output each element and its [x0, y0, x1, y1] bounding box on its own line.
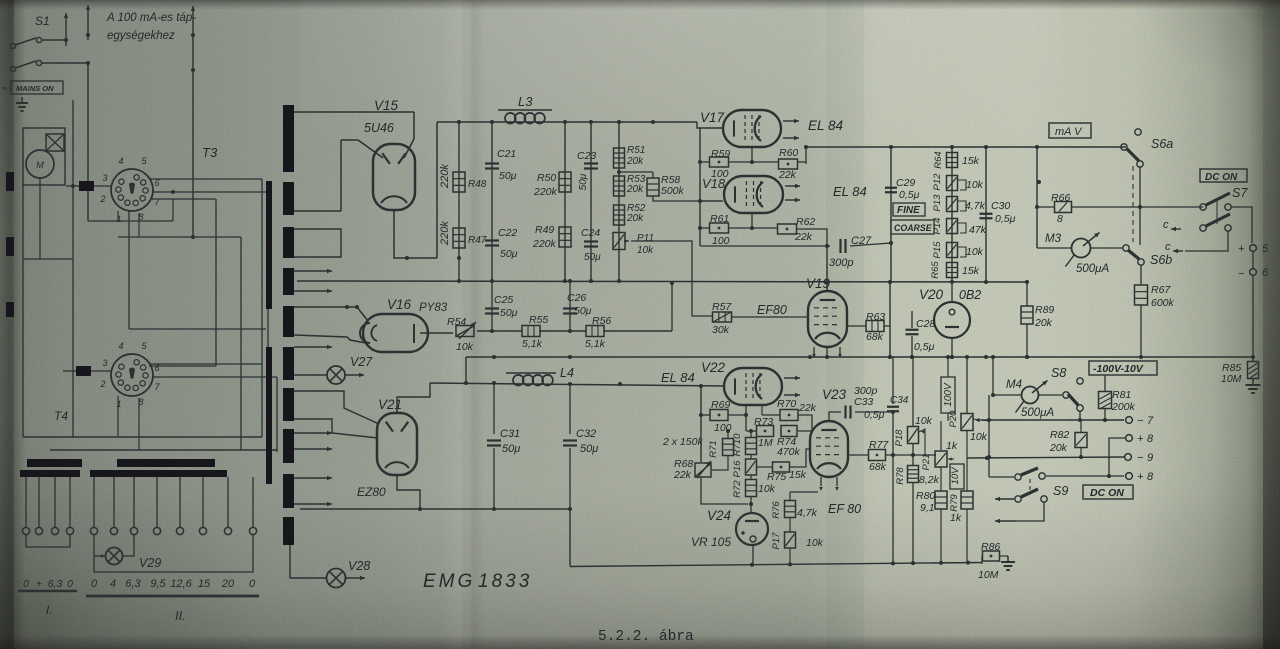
wire y259 horizontal: [23, 258, 73, 260]
switch S6a: [1135, 129, 1141, 135]
svg-text:2: 2: [99, 194, 105, 204]
wire C21 column x492: [491, 122, 493, 281]
svg-text:P18: P18: [894, 429, 905, 447]
svg-text:1833: 1833: [478, 571, 532, 592]
rail bias y281: [297, 281, 1028, 282]
svg-text:220k: 220k: [439, 221, 451, 246]
svg-text:R55: R55: [529, 314, 548, 326]
wire socket2 pin6 right: [149, 363, 262, 365]
svg-text:S6a: S6a: [1151, 137, 1173, 151]
svg-text:V19: V19: [806, 276, 831, 291]
svg-text:1: 1: [116, 399, 121, 409]
potentiometer P21: [935, 451, 947, 467]
resistor R710: [750, 431, 752, 437]
svg-text:c: c: [1165, 241, 1171, 253]
svg-text:P11: P11: [637, 233, 654, 244]
svg-text:R71: R71: [708, 440, 719, 457]
resistor R56: [586, 326, 604, 337]
black mark left edge 3: [6, 302, 14, 317]
svg-text:0: 0: [23, 578, 29, 590]
svg-text:15k: 15k: [962, 265, 980, 277]
V21 anode winding wire 1: [294, 391, 379, 424]
wire bus C with up arrow: [192, 35, 194, 237]
svg-text:R81: R81: [1112, 389, 1131, 401]
svg-text:V24: V24: [707, 508, 731, 523]
capacitor C29: [885, 187, 897, 189]
terminal 8 lower: [1126, 473, 1133, 480]
terminal bar row2 seg2: [90, 470, 227, 477]
transformer core bar left segment 2: [266, 347, 272, 484]
heater winding arrow 2: [294, 290, 332, 292]
box DC ON right: [1200, 169, 1247, 182]
wire socket1 bottom bus: [88, 220, 173, 222]
inductor L3: [505, 113, 516, 124]
wire bus y450: [50, 449, 277, 451]
svg-text:30k: 30k: [712, 324, 730, 336]
box 10V rotated: [950, 464, 964, 489]
svg-text:470k: 470k: [777, 446, 801, 458]
wire S8 down to -7 rail: [1079, 411, 1081, 420]
svg-text:R76: R76: [771, 501, 782, 519]
svg-text:220k: 220k: [532, 238, 557, 250]
svg-text:−: −: [1137, 415, 1144, 427]
svg-text:EZ80: EZ80: [357, 485, 386, 499]
svg-text:V20: V20: [919, 287, 944, 302]
wire V22 pin x746: [745, 404, 747, 431]
svg-text:EF 80: EF 80: [828, 502, 861, 516]
lamp V28 arrow: [346, 577, 365, 579]
terminal lead II x94: [93, 477, 95, 527]
switch S7 pole 1: [1200, 204, 1206, 210]
wire R57 to V19 grid: [731, 316, 808, 318]
terminal lead II x114: [113, 477, 115, 527]
wire V24 down: [752, 545, 754, 565]
V20 bottom lead: [951, 338, 953, 357]
terminal lead II x157: [156, 477, 158, 527]
V20 top lead: [951, 282, 953, 302]
svg-text:V23: V23: [822, 387, 847, 402]
resistor R58: [647, 178, 659, 196]
svg-text:20: 20: [221, 578, 235, 590]
svg-text:C30: C30: [991, 200, 1010, 212]
resistor R64: [947, 153, 958, 168]
tube V22: [724, 368, 782, 405]
svg-text:V27: V27: [350, 355, 373, 369]
svg-text:0B2: 0B2: [959, 288, 981, 302]
svg-text:R78: R78: [895, 467, 906, 485]
svg-text:4: 4: [118, 156, 123, 166]
V16 plate wire to R54: [420, 332, 453, 334]
svg-text:600k: 600k: [1151, 297, 1175, 309]
wire motor down: [39, 178, 41, 259]
V23 cathode pins: [820, 477, 822, 486]
svg-text:4: 4: [118, 341, 123, 351]
svg-text:0: 0: [91, 578, 98, 590]
wire socket2 bottom: [117, 396, 119, 437]
potentiometer R68: [695, 463, 711, 477]
svg-text:R710: R710: [732, 433, 743, 456]
svg-text:EL 84: EL 84: [833, 184, 867, 199]
bracket winding I: [26, 535, 70, 547]
terminal circle I 26: [22, 527, 29, 534]
svg-text:S9: S9: [1053, 484, 1068, 498]
svg-text:50μ: 50μ: [574, 305, 592, 317]
underline I: [18, 590, 77, 592]
resistor R66: [1037, 206, 1055, 208]
resistor R59: [710, 157, 729, 167]
transformer winding bar segment 10: [283, 517, 294, 545]
wire V22 pin x762 to R70: [761, 404, 763, 415]
tube V17: [723, 110, 781, 147]
terminal bar row2 seg1: [20, 470, 80, 477]
wire V17 pin down: [751, 147, 753, 162]
svg-text:V15: V15: [374, 98, 399, 113]
svg-text:I.: I.: [46, 603, 53, 617]
wire socket2 pin7 right: [152, 376, 277, 378]
svg-text:500μA: 500μA: [1021, 407, 1054, 419]
svg-text:47k: 47k: [969, 224, 987, 236]
terminal lead II x253: [252, 477, 254, 527]
svg-text:P21: P21: [921, 454, 932, 471]
bracket winding II: [94, 535, 253, 572]
valve bowtie symbol: [46, 134, 64, 151]
resistor R49: [559, 227, 571, 247]
capacitor C22: [485, 239, 499, 241]
heater winding arrow 3: [294, 346, 332, 348]
rail y330 R55 R56: [477, 330, 522, 332]
terminal circle II 253: [249, 527, 256, 534]
svg-text:20k: 20k: [1049, 442, 1068, 454]
wire x890 down: [889, 282, 891, 357]
potentiometer P14: [947, 219, 958, 234]
svg-text:V29: V29: [139, 556, 161, 570]
svg-text:10M: 10M: [1221, 373, 1242, 385]
svg-text:R48: R48: [468, 179, 487, 190]
svg-text:C28: C28: [916, 318, 935, 330]
svg-text:V18: V18: [702, 176, 726, 191]
svg-text:P12: P12: [932, 173, 943, 191]
rail +8 y476: [1046, 475, 1124, 477]
V23 plate wire to R77: [847, 449, 849, 455]
V22 arrows: [784, 377, 800, 379]
svg-text:R62: R62: [796, 216, 815, 228]
resistor R77: [869, 450, 886, 461]
svg-text:−: −: [1238, 268, 1245, 280]
wire C29 column x891: [890, 147, 892, 282]
row R73 R74: [746, 430, 756, 432]
svg-text:22k: 22k: [778, 169, 797, 181]
rail y146 anode supply: [806, 146, 1126, 148]
terminal bar row1 seg2: [117, 459, 215, 467]
svg-text:V17: V17: [700, 110, 725, 125]
HV winding top wire to V15 anode: [294, 111, 414, 113]
svg-text:R89: R89: [1035, 304, 1054, 316]
wire x466 link up: [465, 357, 467, 383]
svg-text:6: 6: [1262, 267, 1269, 279]
svg-text:500μA: 500μA: [1076, 263, 1109, 275]
wire V17 left entry: [697, 122, 723, 128]
svg-text:15k: 15k: [789, 469, 807, 481]
svg-text:C21: C21: [497, 148, 516, 160]
svg-text:R67: R67: [1151, 284, 1171, 296]
rail -7 y420: [981, 419, 1124, 421]
svg-text:R69: R69: [711, 399, 730, 411]
wire vertical x277: [276, 377, 278, 452]
transformer winding bar segment 1: [283, 105, 294, 172]
row R69: [701, 414, 710, 416]
svg-text:R56: R56: [592, 315, 611, 327]
wire S7 pole2 elbow: [1185, 231, 1228, 251]
svg-text:VR 105: VR 105: [691, 535, 731, 549]
resistor R71: [727, 431, 729, 438]
svg-text:1M: 1M: [758, 437, 773, 449]
svg-text:R57: R57: [712, 301, 732, 313]
svg-text:9: 9: [1147, 452, 1153, 464]
svg-text:10k: 10k: [966, 179, 984, 191]
svg-text:2 x 150k: 2 x 150k: [662, 436, 703, 448]
wire R58 branch: [619, 171, 653, 173]
wire M4 row: [993, 394, 1021, 396]
V15 cathode wire: [394, 210, 437, 258]
lamp V27 arrow: [345, 374, 364, 376]
rail L4 y383: [430, 383, 724, 386]
svg-text:R64: R64: [933, 151, 944, 168]
svg-text:12,6: 12,6: [170, 578, 192, 590]
motor enclosure: [23, 128, 65, 185]
svg-text:9,5: 9,5: [150, 578, 166, 590]
svg-text:T3: T3: [202, 145, 218, 160]
svg-text:R66: R66: [1051, 192, 1070, 204]
wire C27 row: [700, 245, 830, 247]
wire terminal8 upper link: [1109, 438, 1125, 476]
svg-text:M: M: [36, 160, 44, 170]
terminal 7: [1126, 417, 1133, 424]
wire S6b to R67: [1140, 265, 1142, 285]
wire bus A with up arrow: [65, 13, 67, 46]
terminal circle II 134: [130, 527, 137, 534]
potentiometer P13: [947, 197, 958, 212]
svg-text:1k: 1k: [950, 512, 962, 524]
svg-text:COARSE: COARSE: [894, 223, 933, 233]
svg-text:C25: C25: [494, 294, 513, 306]
svg-text:R70: R70: [777, 398, 796, 410]
lamp V28 wire: [290, 545, 327, 578]
wire socket1 pin7 right: [152, 191, 268, 193]
wire S1 pole1 to bus: [42, 39, 66, 41]
tube V21: [377, 413, 417, 475]
terminal lead I x70: [69, 477, 71, 527]
tube V23: [810, 421, 848, 477]
potentiometer P18: [908, 427, 919, 444]
transformer winding bar segment 8: [283, 429, 294, 463]
svg-text:220k: 220k: [439, 164, 451, 189]
svg-text:50μ: 50μ: [578, 173, 589, 190]
wire P16 wiper to R75: [757, 466, 772, 468]
heater winding arrow 4: [294, 432, 332, 434]
transformer winding bar segment 9: [283, 474, 294, 508]
tube V15: [373, 144, 415, 210]
capacitor C23: [584, 162, 598, 164]
row y228 R61 R62: [700, 227, 710, 229]
P18 wiper: [919, 429, 925, 455]
svg-text:C34: C34: [890, 395, 909, 406]
V16 heater winding top wire: [294, 306, 357, 308]
box FINE: [893, 203, 925, 216]
svg-text:S7: S7: [1232, 186, 1248, 200]
svg-text:9,1: 9,1: [920, 502, 935, 514]
svg-text:II.: II.: [175, 608, 186, 623]
terminal circle II 180: [176, 527, 183, 534]
wire x806 plate column: [805, 147, 807, 164]
svg-text:6,3: 6,3: [125, 578, 141, 590]
box 100V rotated: [941, 377, 955, 413]
resistor R62: [778, 224, 797, 234]
ground at mains: [21, 97, 23, 103]
terminal lead I x39: [38, 477, 40, 527]
transformer winding bar segment 7: [283, 388, 294, 421]
svg-text:MAINS ON: MAINS ON: [16, 84, 54, 93]
svg-text:1: 1: [116, 214, 121, 224]
resistor R50: [559, 172, 571, 192]
wire R67 down: [1140, 305, 1142, 357]
capacitor C34: [892, 357, 894, 404]
terminal lead II x228: [227, 477, 229, 527]
transformer winding bar segment 6: [283, 347, 294, 380]
svg-text:R75: R75: [767, 471, 786, 483]
resistor R72: [750, 475, 752, 480]
svg-text:S8: S8: [1051, 366, 1066, 380]
svg-text:−: −: [1137, 452, 1144, 464]
wire col x913: [912, 357, 914, 426]
resistor R89: [1026, 282, 1028, 306]
fuse F1: [79, 181, 94, 191]
resistor R65: [947, 263, 958, 278]
wire pot chain column x952: [951, 147, 953, 282]
wire R71 bottom: [712, 456, 728, 470]
svg-text:R61: R61: [710, 213, 729, 225]
resistor R82: [1080, 420, 1082, 432]
svg-text:10M: 10M: [978, 569, 999, 581]
terminal circle II 203: [199, 527, 206, 534]
wire x73 vertical: [72, 100, 74, 437]
potentiometer P15: [947, 243, 958, 258]
svg-text:8: 8: [1147, 471, 1154, 483]
potentiometer P17: [789, 518, 791, 532]
svg-text:50μ: 50μ: [584, 252, 601, 263]
svg-text:20k: 20k: [1034, 317, 1053, 329]
resistor R67: [1135, 285, 1148, 305]
lamp V29: [106, 548, 123, 565]
resistor R53: [614, 176, 625, 196]
wire V22 left column x701: [700, 386, 702, 462]
svg-text:R86: R86: [981, 541, 1000, 553]
svg-text:R63: R63: [866, 311, 885, 323]
resistor R51: [614, 148, 625, 168]
svg-text:10k: 10k: [970, 431, 988, 443]
wire col x941: [940, 421, 942, 450]
wire x993 from rail: [992, 357, 994, 395]
wire C26 column: [569, 281, 571, 331]
capacitor C21: [485, 162, 499, 164]
terminal circle II 228: [224, 527, 231, 534]
resistor R73: [757, 426, 774, 437]
svg-text:+: +: [1238, 243, 1245, 255]
potentiometer P11: [613, 233, 625, 250]
svg-text:V28: V28: [348, 559, 370, 573]
arrow S9 pole2 out: [995, 520, 1016, 522]
lamp V27: [327, 366, 345, 384]
terminal lead I x26: [25, 477, 27, 527]
resistor R78: [912, 444, 914, 466]
resistor R70: [780, 410, 798, 421]
wire V18 grid entry: [700, 200, 723, 202]
svg-text:68k: 68k: [866, 331, 884, 343]
svg-text:300p: 300p: [829, 257, 853, 269]
wire R75 to V23: [790, 449, 811, 467]
svg-text:P16: P16: [732, 460, 743, 478]
V15 anode lead right: [404, 139, 414, 158]
wire term6 down to R85: [1252, 276, 1254, 361]
svg-text:-100V-10V: -100V-10V: [1093, 363, 1144, 375]
wire P17 down: [789, 548, 791, 565]
terminal circle II 114: [110, 527, 117, 534]
svg-text:+: +: [1137, 471, 1144, 483]
resistor R52: [614, 205, 625, 225]
V17 arrows: [783, 120, 799, 122]
wire R78 down: [912, 483, 914, 564]
svg-text:6,3: 6,3: [48, 578, 63, 590]
resistor R80: [935, 491, 947, 509]
terminal circle I 70: [66, 527, 73, 534]
svg-text:V16: V16: [387, 297, 412, 312]
heater winding arrow 6: [294, 477, 332, 479]
svg-text:DC ON: DC ON: [1205, 172, 1238, 183]
svg-text:R80: R80: [916, 490, 935, 502]
svg-text:5: 5: [1262, 243, 1269, 255]
terminal lead I x55: [54, 477, 56, 527]
wire S6a throw down: [1139, 167, 1141, 245]
svg-text:0,5μ: 0,5μ: [899, 189, 920, 201]
transformer winding bar segment 5: [283, 306, 294, 337]
svg-text:C23: C23: [577, 150, 596, 162]
switch S6b: [1123, 245, 1129, 251]
wire V21 cathode down: [397, 475, 420, 509]
box mA V: [1049, 123, 1091, 138]
inductor L4: [513, 375, 524, 386]
svg-text:20k: 20k: [626, 156, 644, 167]
wire R50 column x565: [564, 122, 566, 281]
wire col x967 top: [966, 357, 968, 413]
wire M3 left: [1037, 247, 1071, 249]
wire vertical x241: [240, 237, 242, 450]
resistor R79: [966, 458, 968, 491]
transformer winding bar segment 2: [283, 182, 294, 215]
rail junction dots y281: [825, 280, 829, 284]
svg-text:10k: 10k: [456, 341, 474, 353]
V18 arrows: [785, 185, 800, 187]
wire M3 to S6b: [1090, 247, 1123, 249]
svg-text:4: 4: [110, 578, 116, 590]
wire C23 column x591: [590, 122, 592, 281]
svg-text:R50: R50: [537, 172, 556, 184]
svg-text:V22: V22: [701, 360, 726, 375]
svg-text:100: 100: [712, 235, 730, 247]
resistor R47: [453, 228, 465, 248]
svg-text:C29: C29: [896, 177, 915, 189]
svg-text:0: 0: [67, 578, 73, 590]
transformer winding bar segment 4: [283, 268, 294, 295]
tube V20: [934, 302, 970, 338]
